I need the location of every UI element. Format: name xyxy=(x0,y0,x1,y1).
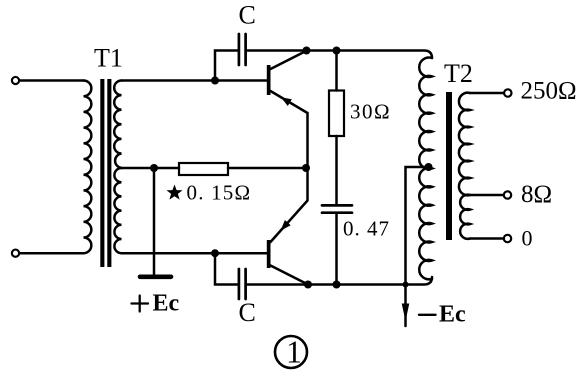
wire bottom rail xyxy=(308,277,432,285)
wire input top xyxy=(19,79,83,82)
node collector top xyxy=(303,47,311,55)
Q1 emitter xyxy=(271,91,308,168)
svg-text:T2: T2 xyxy=(444,59,473,88)
wire top rail xyxy=(307,51,433,59)
label -Ec xyxy=(419,314,436,316)
label +Ec xyxy=(132,296,149,312)
svg-text:C: C xyxy=(239,1,256,30)
capacitor C1 plates xyxy=(239,34,246,65)
wire upper base line xyxy=(122,79,267,82)
svg-text:0. 15Ω: 0. 15Ω xyxy=(187,181,252,205)
resistor 30 ohm lead top xyxy=(335,51,338,91)
transistor Q1 base bar xyxy=(267,65,271,95)
svg-text:250Ω: 250Ω xyxy=(521,78,577,105)
Q1 collector xyxy=(271,51,307,69)
svg-text:1: 1 xyxy=(286,334,302,370)
tap 0 xyxy=(470,237,504,240)
terminal 250 ohm xyxy=(504,89,511,96)
svg-text:Ec: Ec xyxy=(439,302,466,328)
node rail crossing xyxy=(403,282,409,288)
node lower base xyxy=(211,249,219,257)
wire center tap to -Ec xyxy=(406,167,429,326)
wire lower base line xyxy=(122,252,267,255)
svg-text:0: 0 xyxy=(522,226,533,251)
input terminal top xyxy=(12,77,19,84)
wire input bottom xyxy=(19,252,83,255)
svg-text:T1: T1 xyxy=(94,44,123,73)
Q2 collector xyxy=(271,266,309,285)
wire ground drop xyxy=(153,168,156,275)
svg-text:8Ω: 8Ω xyxy=(521,181,552,208)
node emitters xyxy=(302,164,310,172)
Q1 emitter arrow xyxy=(281,97,292,106)
star mark xyxy=(167,185,183,200)
T2 center tap xyxy=(425,163,433,171)
terminal 8 ohm xyxy=(504,191,511,198)
tap 8 ohm xyxy=(470,194,504,197)
T2 secondary winding lower section xyxy=(460,195,470,239)
node collector bottom xyxy=(304,281,312,289)
svg-text:C: C xyxy=(239,298,256,327)
node center tap xyxy=(150,164,158,172)
wire cap to collector node xyxy=(247,49,307,52)
svg-text:30Ω: 30Ω xyxy=(350,100,391,124)
T2 core xyxy=(446,92,452,240)
resistor 30 ohm xyxy=(329,91,344,137)
node at jog/base xyxy=(211,77,219,85)
wire cap 0.47 to rail xyxy=(335,214,338,285)
terminal 0 xyxy=(504,235,511,242)
wire capacitor jog top xyxy=(215,51,238,81)
input terminal bottom xyxy=(12,250,19,257)
-Ec arrowhead xyxy=(402,304,410,322)
wire resistor to cap 0.47 xyxy=(335,136,338,204)
ground bar xyxy=(140,274,171,279)
resistor R 0.15 ohm xyxy=(179,163,228,175)
node 30ohm bottom rail xyxy=(333,281,341,289)
tap 250 ohm xyxy=(470,92,504,95)
figure number circle xyxy=(275,336,307,368)
transformer T1 primary winding xyxy=(84,81,92,254)
transformer T2 primary winding xyxy=(419,57,432,279)
node 30ohm top xyxy=(333,47,341,55)
Q2 emitter xyxy=(271,168,308,242)
svg-text:0. 47: 0. 47 xyxy=(343,217,390,241)
wire capacitor jog bottom xyxy=(215,253,238,284)
Q2 emitter arrow xyxy=(281,220,291,231)
wire middle line (center tap) xyxy=(122,167,307,170)
capacitor 0.47 plates xyxy=(322,205,352,212)
wire cap2 to collector node xyxy=(247,283,308,286)
T1 secondary winding lower half xyxy=(114,168,121,253)
capacitor C2 plates xyxy=(239,269,246,299)
svg-text:Ec: Ec xyxy=(153,291,180,317)
T2 secondary winding upper section xyxy=(459,93,470,196)
T1 secondary winding upper half xyxy=(114,81,121,169)
T1 core xyxy=(100,79,111,267)
transistor Q2 base bar xyxy=(267,240,271,268)
